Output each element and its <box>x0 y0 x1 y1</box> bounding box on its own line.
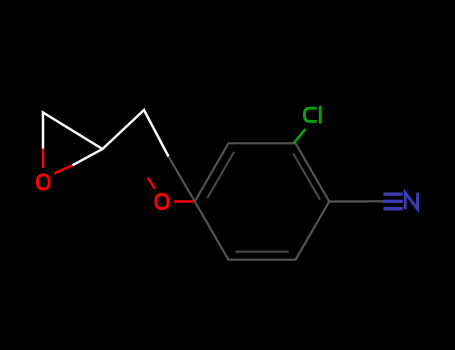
node: ether oxygen O2 label <box>156 195 168 209</box>
wire: ether O upper-left red stub <box>148 178 155 189</box>
node: nitrile nitrogen N label (blue) <box>405 193 417 210</box>
node: epoxide oxygen O1 label <box>38 175 50 189</box>
wire: nitrile triple bond blue halves <box>384 194 403 209</box>
wire: inner double bond line near TR-R edge <box>293 153 320 199</box>
wire: epoxide O-C1 bond white half, C1-CH2 linker, CH2 descending white part <box>72 110 168 165</box>
wire: inner double bond line near L-TL edge <box>207 152 234 198</box>
wire: epoxide O-C1 bond red half <box>54 165 72 173</box>
wire: inner double bond line near BR-BL edge <box>235 251 289 253</box>
wire: CH2 descending bond gray part to ring <box>169 157 195 202</box>
wire: epoxide C2-O bond upper half (white) <box>43 113 103 150</box>
benzene ring (gray hexagon) <box>195 143 329 259</box>
node: chlorine Cl label (green) <box>304 106 320 124</box>
wire: nitrile middle bond gray continuation <box>368 200 384 202</box>
wire: ether O to ring bond (red) <box>174 200 194 202</box>
wire: C-Cl bond (green) <box>294 129 306 143</box>
wire: ring hexagon outline <box>195 143 329 259</box>
wire: epoxide C2-O bond lower half (red) <box>42 149 44 168</box>
wire: ring to nitrile C single bond (gray) <box>329 200 368 202</box>
